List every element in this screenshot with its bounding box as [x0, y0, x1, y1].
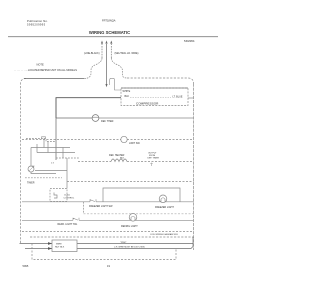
svg-text:5995209993: 5995209993 — [27, 22, 46, 26]
svg-text:(LINE-BLACK): (LINE-BLACK) — [84, 52, 100, 55]
svg-text:LIMIT SW.: LIMIT SW. — [129, 142, 140, 145]
svg-text:REFR. LIGHT SW.: REFR. LIGHT SW. — [58, 223, 78, 226]
svg-text:(NEUTRAL LD. WIRE): (NEUTRAL LD. WIRE) — [115, 52, 139, 55]
svg-text:COLD: COLD — [64, 194, 70, 196]
svg-text:DEF. THER.: DEF. THER. — [101, 120, 114, 123]
svg-text:1 3: 1 3 — [51, 163, 55, 165]
svg-text:53026801: 53026801 — [184, 40, 195, 43]
svg-text:LT. BLUE: LT. BLUE — [173, 96, 183, 99]
svg-text:WHITE: WHITE — [123, 90, 131, 93]
svg-text:FRT18NQA: FRT18NQA — [102, 18, 116, 22]
svg-text:FREEZER LIGHT: FREEZER LIGHT — [155, 206, 174, 209]
svg-text:NOTE: NOTE — [37, 63, 44, 67]
svg-text:5995: 5995 — [23, 264, 29, 268]
svg-text:DEF. TIMER: DEF. TIMER — [148, 158, 160, 160]
svg-text:L.H. WIRE MUST BE 105°C MIN.: L.H. WIRE MUST BE 105°C MIN. — [114, 246, 145, 248]
svg-text:Publication No.: Publication No. — [27, 19, 48, 23]
svg-text:19: 19 — [107, 264, 110, 268]
svg-text:⌜PRM⌝: ⌜PRM⌝ — [120, 241, 126, 244]
svg-text:BLK: BLK — [125, 95, 130, 98]
svg-text:REFRIG LIGHT: REFRIG LIGHT — [121, 225, 138, 228]
svg-text:. . . . . . . . . - LOCATED BE: . . . . . . . . . - LOCATED BEHIND UNIT … — [14, 69, 77, 72]
svg-text:TIMER: TIMER — [27, 182, 35, 185]
svg-text:CONTROL: CONTROL — [64, 197, 75, 199]
svg-text:WIRE: WIRE — [56, 244, 62, 246]
svg-text:CON. WIRING DIAGRAM 5995: CON. WIRING DIAGRAM 5995 — [150, 233, 179, 236]
svg-text:BLK: BLK — [120, 158, 125, 160]
svg-text:NUT BLK: NUT BLK — [55, 247, 65, 249]
svg-text:WIRING SCHEMATIC: WIRING SCHEMATIC — [89, 30, 130, 35]
svg-text:COMPRESSOR: COMPRESSOR — [136, 102, 159, 106]
svg-text:FREEZER LIGHT SW.: FREEZER LIGHT SW. — [89, 205, 113, 208]
